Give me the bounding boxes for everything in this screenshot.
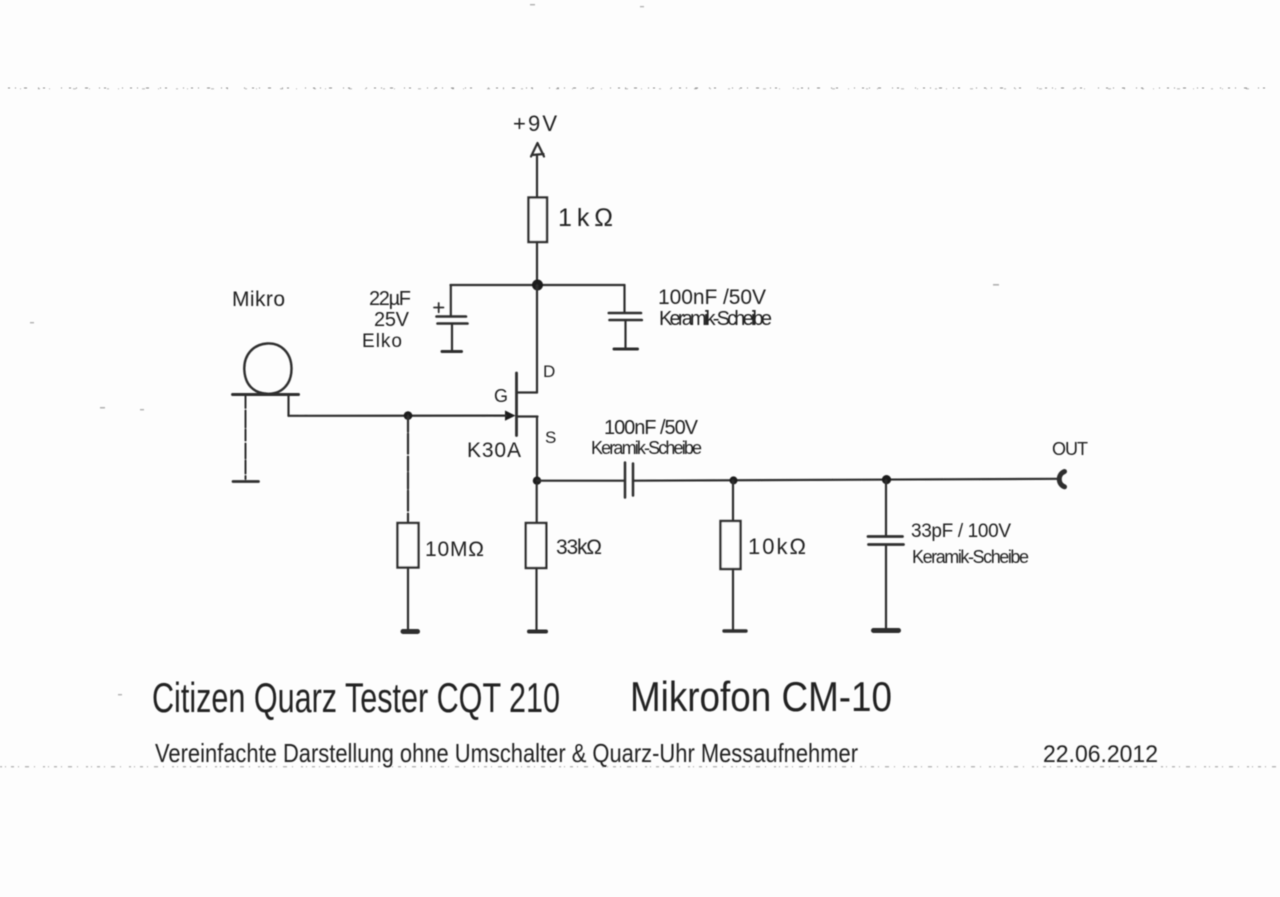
node source junction xyxy=(533,477,541,485)
capacitor C1 22uF plates xyxy=(437,317,468,324)
svg-text:1kΩ: 1kΩ xyxy=(558,204,613,232)
wire R4 to ground xyxy=(732,569,734,630)
svg-text:Citizen Quarz Tester CQT 210: Citizen Quarz Tester CQT 210 xyxy=(152,674,560,721)
svg-text:33kΩ: 33kΩ xyxy=(556,536,602,559)
svg-text:33pF / 100V: 33pF / 100V xyxy=(911,521,1011,542)
microphone ground bar xyxy=(233,480,259,483)
svg-text:100nF /50V: 100nF /50V xyxy=(658,286,766,309)
resistor R1 1kΩ xyxy=(529,198,548,243)
node 33pF junction xyxy=(882,475,891,484)
C4 ground bar xyxy=(874,628,899,633)
wire node to drain xyxy=(536,285,538,393)
svg-text:OUT: OUT xyxy=(1052,439,1088,459)
node 10k junction xyxy=(730,476,738,484)
wire source down xyxy=(536,417,538,485)
svg-text:Vereinfachte Darstellung ohne: Vereinfachte Darstellung ohne Umschalter… xyxy=(155,738,858,768)
C2 terminal bar xyxy=(614,348,638,351)
capacitor C1 22uF elko labels xyxy=(362,288,411,352)
wire junction to R4 xyxy=(732,481,734,522)
node OUT terminal xyxy=(1059,472,1064,487)
Q1 gate arrow xyxy=(505,411,516,421)
scan specks xyxy=(30,4,999,695)
wire node to C1 xyxy=(450,285,452,316)
wire junction to C4 xyxy=(885,480,887,536)
wire supply to R1 xyxy=(536,155,538,198)
C1 plus sign xyxy=(434,303,444,312)
svg-text:G: G xyxy=(494,386,508,406)
svg-text:Mikrofon CM-10: Mikrofon CM-10 xyxy=(630,673,892,720)
wire R2 to ground xyxy=(407,568,409,631)
wire drain-node horizontal xyxy=(451,284,625,286)
capacitor C4 33pF labels xyxy=(911,521,1029,567)
R2 ground bar xyxy=(403,629,418,634)
wire gate xyxy=(289,415,507,417)
C1 terminal bar xyxy=(442,350,462,353)
svg-text:K30A: K30A xyxy=(467,439,521,462)
title text xyxy=(152,673,1158,768)
pin G label xyxy=(494,386,508,406)
node drain junction xyxy=(532,280,543,291)
wire C2 bottom xyxy=(624,321,626,349)
wire source to C3 xyxy=(537,480,625,482)
R3 ground bar xyxy=(529,630,546,634)
wire R1 to drain node xyxy=(536,242,538,285)
capacitor C3 100nF coupling labels xyxy=(591,417,702,458)
wire R3 to ground xyxy=(535,568,537,630)
Q1 label K30A xyxy=(467,439,521,462)
R4 ground bar xyxy=(724,629,746,632)
svg-text:S: S xyxy=(545,428,556,447)
resistor R3 33kΩ xyxy=(526,523,547,568)
wire C4 to ground xyxy=(885,546,887,629)
svg-text:22.06.2012: 22.06.2012 xyxy=(1043,741,1158,768)
pin D label xyxy=(543,362,555,381)
wire C1 bottom xyxy=(451,324,453,351)
svg-text:Keramik-Scheibe: Keramik-Scheibe xyxy=(591,438,702,458)
microphone left lead xyxy=(245,395,247,479)
microphone label xyxy=(232,288,285,311)
svg-text:10kΩ: 10kΩ xyxy=(748,534,806,559)
svg-text:+9V: +9V xyxy=(513,111,557,136)
microphone right lead xyxy=(287,395,289,416)
node gate junction xyxy=(404,411,413,420)
microphone plate xyxy=(233,393,299,396)
svg-text:Elko: Elko xyxy=(362,331,402,352)
svg-text:Keramik-Scheibe: Keramik-Scheibe xyxy=(659,308,772,330)
capacitor C2 100nF plates xyxy=(609,313,642,320)
wire source to R3 xyxy=(536,484,538,523)
capacitor C3 plates xyxy=(625,463,633,498)
wire C3 to out xyxy=(634,479,1060,481)
resistor R4 10kΩ xyxy=(721,521,741,569)
svg-text:25V: 25V xyxy=(374,309,410,331)
svg-text:D: D xyxy=(543,362,555,381)
faint scan line top xyxy=(8,87,1272,89)
transistor Q1 K30A JFET xyxy=(515,373,518,436)
svg-text:Mikro: Mikro xyxy=(232,288,285,311)
wire node to C2 xyxy=(623,285,625,313)
svg-text:10MΩ: 10MΩ xyxy=(425,538,484,561)
faint scan line bottom xyxy=(0,766,1280,768)
capacitor C2 100nF labels xyxy=(658,286,772,330)
microphone M1 body xyxy=(244,343,291,393)
svg-text:22µF: 22µF xyxy=(369,288,411,310)
node +9V label xyxy=(513,111,557,136)
pin S label xyxy=(545,428,556,447)
+9V arrow xyxy=(531,143,544,157)
svg-text:Keramik-Scheibe: Keramik-Scheibe xyxy=(912,547,1029,567)
resistor R2 10MΩ xyxy=(398,523,419,568)
svg-text:100nF /50V: 100nF /50V xyxy=(604,417,699,439)
capacitor C4 plates xyxy=(868,537,904,545)
wire junction to R2 xyxy=(407,416,409,523)
